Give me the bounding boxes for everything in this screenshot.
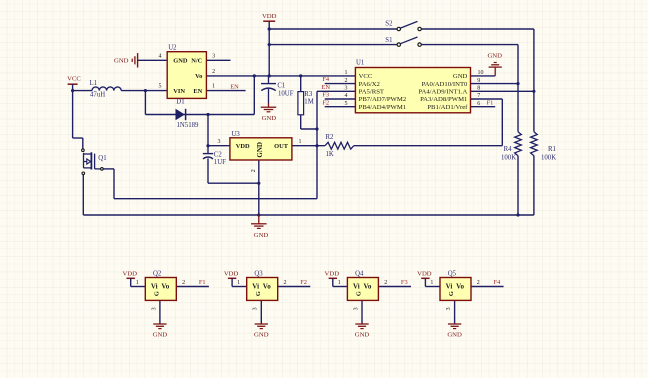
svg-text:GND: GND bbox=[355, 332, 370, 339]
junction bbox=[206, 144, 209, 147]
svg-text:2: 2 bbox=[284, 280, 287, 286]
power VDD port (Q3) bbox=[224, 271, 239, 287]
wire bbox=[253, 76, 255, 115]
svg-text:GND: GND bbox=[173, 58, 188, 65]
junction bbox=[299, 74, 302, 77]
svg-text:10UF: 10UF bbox=[278, 90, 294, 97]
wire bbox=[269, 28, 397, 30]
svg-text:5: 5 bbox=[159, 84, 162, 90]
pin 1 bbox=[345, 70, 348, 76]
svg-text:G: G bbox=[356, 291, 363, 296]
svg-text:2: 2 bbox=[384, 280, 387, 286]
svg-text:3: 3 bbox=[218, 139, 221, 145]
svg-text:EN: EN bbox=[321, 84, 330, 91]
wire bbox=[454, 300, 456, 323]
wire bbox=[301, 115, 317, 129]
power VDD port (Q4) bbox=[325, 271, 340, 287]
svg-text:5: 5 bbox=[345, 101, 348, 107]
svg-text:GND: GND bbox=[453, 73, 468, 80]
svg-text:PB1/AD1/Vref: PB1/AD1/Vref bbox=[427, 104, 468, 111]
svg-text:VDD: VDD bbox=[122, 271, 137, 278]
svg-text:GND: GND bbox=[254, 332, 269, 339]
svg-text:L1: L1 bbox=[90, 80, 98, 87]
pin 2 bbox=[345, 78, 348, 84]
svg-text:U2: U2 bbox=[168, 45, 177, 52]
svg-text:1: 1 bbox=[212, 84, 215, 90]
svg-text:OUT: OUT bbox=[274, 143, 289, 150]
svg-text:U1: U1 bbox=[356, 59, 364, 66]
svg-text:1: 1 bbox=[345, 70, 348, 76]
wire bbox=[471, 106, 496, 108]
net label EN bbox=[230, 83, 239, 90]
svg-text:PA0/AD10/INT0: PA0/AD10/INT0 bbox=[422, 81, 468, 88]
svg-text:VDD: VDD bbox=[236, 143, 250, 150]
pin 1 bbox=[430, 280, 433, 286]
ic U3 bbox=[230, 131, 292, 160]
svg-text:2: 2 bbox=[477, 280, 480, 286]
svg-text:2: 2 bbox=[212, 69, 215, 75]
wire bbox=[144, 91, 146, 115]
pin 1 bbox=[237, 280, 240, 286]
svg-text:G: G bbox=[153, 291, 160, 296]
svg-text:PA5/RST: PA5/RST bbox=[359, 89, 384, 96]
svg-text:F1: F1 bbox=[487, 99, 494, 106]
svg-text:F2: F2 bbox=[322, 99, 329, 106]
svg-text:Vo: Vo bbox=[364, 283, 372, 291]
pin 3 bbox=[151, 307, 157, 310]
wire bbox=[333, 286, 348, 288]
wire bbox=[208, 145, 230, 147]
junction bbox=[253, 74, 256, 77]
resistor R2 bbox=[325, 134, 354, 158]
svg-text:3: 3 bbox=[151, 307, 157, 310]
svg-text:2: 2 bbox=[182, 280, 185, 286]
svg-text:VIN: VIN bbox=[173, 88, 185, 95]
ic Q5 bbox=[440, 271, 471, 301]
junction bbox=[144, 89, 147, 92]
svg-text:100K: 100K bbox=[541, 155, 556, 162]
pin 1 bbox=[136, 280, 139, 286]
svg-text:1UF: 1UF bbox=[214, 159, 226, 166]
wire bbox=[145, 114, 254, 116]
net label F2 bbox=[322, 99, 329, 106]
svg-text:R1: R1 bbox=[548, 146, 556, 153]
svg-text:GND: GND bbox=[153, 332, 168, 339]
svg-text:7: 7 bbox=[477, 93, 480, 99]
junction bbox=[257, 213, 260, 216]
wire bbox=[471, 90, 534, 92]
resistor R3 bbox=[298, 91, 314, 115]
svg-text:GND: GND bbox=[262, 115, 277, 122]
wire bbox=[425, 286, 440, 288]
junction bbox=[268, 43, 271, 46]
junction bbox=[206, 113, 209, 116]
wire bbox=[354, 145, 503, 147]
svg-text:1N5189: 1N5189 bbox=[177, 122, 200, 129]
pin 5 bbox=[159, 84, 162, 90]
svg-text:S1: S1 bbox=[385, 37, 392, 44]
svg-text:D1: D1 bbox=[176, 99, 184, 106]
capacitor C2 bbox=[203, 152, 226, 166]
svg-text:GND: GND bbox=[447, 332, 462, 339]
svg-text:Vi: Vi bbox=[446, 283, 453, 291]
wire bbox=[258, 183, 260, 215]
junction bbox=[516, 82, 519, 85]
svg-text:Q5: Q5 bbox=[448, 271, 457, 278]
svg-text:1: 1 bbox=[237, 280, 240, 286]
pin 7 bbox=[477, 93, 480, 99]
svg-text:EN: EN bbox=[230, 83, 239, 90]
svg-text:Vi: Vi bbox=[353, 283, 360, 291]
svg-text:PA4/AD9/INT1.A: PA4/AD9/INT1.A bbox=[418, 89, 467, 96]
svg-text:1: 1 bbox=[299, 139, 302, 145]
ground (U2 pin 4) bbox=[114, 53, 138, 67]
svg-text:8: 8 bbox=[477, 86, 480, 92]
wire bbox=[316, 91, 318, 198]
power VDD port (top) bbox=[262, 13, 277, 76]
svg-text:1K: 1K bbox=[326, 151, 334, 158]
svg-text:1M: 1M bbox=[304, 98, 313, 105]
wire bbox=[421, 44, 518, 46]
svg-text:Vi: Vi bbox=[252, 283, 259, 291]
wire bbox=[269, 44, 397, 46]
svg-text:Q3: Q3 bbox=[254, 271, 263, 278]
svg-text:47uH: 47uH bbox=[90, 92, 105, 99]
svg-text:Q2: Q2 bbox=[153, 271, 162, 278]
capacitor C1 bbox=[261, 76, 294, 98]
pin 1 bbox=[338, 280, 341, 286]
ic U1 bbox=[355, 59, 470, 112]
svg-text:Vi: Vi bbox=[151, 283, 158, 291]
wire bbox=[206, 59, 230, 61]
pin 4 bbox=[159, 53, 162, 59]
wire bbox=[131, 286, 146, 288]
wire bbox=[103, 169, 317, 199]
ground (Q5) bbox=[447, 324, 462, 339]
power VDD port (Q5) bbox=[417, 271, 432, 287]
switch S2 bbox=[385, 21, 421, 31]
svg-text:R4: R4 bbox=[504, 146, 513, 153]
wire bbox=[292, 145, 325, 147]
net label F3 bbox=[401, 279, 408, 286]
pin 3 bbox=[212, 53, 215, 59]
wire bbox=[317, 90, 355, 92]
wire bbox=[176, 286, 209, 288]
svg-text:1: 1 bbox=[430, 280, 433, 286]
wire bbox=[533, 29, 535, 132]
svg-text:F2: F2 bbox=[300, 279, 307, 286]
svg-text:F3: F3 bbox=[322, 92, 329, 99]
svg-text:VDD: VDD bbox=[417, 271, 432, 278]
wire bbox=[361, 300, 363, 323]
wire bbox=[73, 90, 168, 92]
svg-text:VDD: VDD bbox=[325, 271, 340, 278]
svg-text:100K: 100K bbox=[501, 155, 516, 162]
svg-text:3: 3 bbox=[253, 307, 259, 310]
svg-text:F4: F4 bbox=[322, 76, 330, 83]
net label F4 bbox=[322, 76, 330, 83]
svg-text:1: 1 bbox=[136, 280, 139, 286]
net label F1 bbox=[487, 99, 494, 106]
svg-text:F1: F1 bbox=[199, 279, 206, 286]
wire bbox=[300, 76, 302, 92]
pin 4 bbox=[345, 93, 348, 99]
pin 10 bbox=[478, 70, 484, 76]
wire bbox=[471, 75, 496, 77]
ic Q2 bbox=[145, 271, 176, 301]
pin 3 bbox=[218, 139, 221, 145]
wire bbox=[325, 106, 356, 108]
svg-text:Vo: Vo bbox=[161, 283, 169, 291]
svg-text:3: 3 bbox=[212, 53, 215, 59]
pin 3 bbox=[353, 307, 359, 310]
pin 6 bbox=[477, 101, 480, 107]
diode D1 bbox=[176, 99, 200, 130]
svg-text:3: 3 bbox=[353, 307, 359, 310]
junction bbox=[315, 144, 318, 147]
wire bbox=[82, 175, 84, 215]
pin 1 bbox=[212, 84, 215, 90]
net label F2 bbox=[300, 279, 307, 286]
svg-text:G: G bbox=[255, 291, 262, 296]
svg-text:GND: GND bbox=[256, 142, 264, 158]
wire bbox=[471, 286, 504, 288]
svg-text:PB4/AD4/PWM1: PB4/AD4/PWM1 bbox=[359, 104, 407, 111]
ground (bottom rail) bbox=[251, 215, 268, 239]
ground (U1 pin 10, inverted) bbox=[487, 53, 502, 76]
svg-text:VDD: VDD bbox=[262, 13, 277, 20]
svg-text:GND: GND bbox=[487, 53, 502, 60]
ground (Q3) bbox=[254, 324, 269, 339]
svg-text:Vo: Vo bbox=[263, 283, 271, 291]
svg-text:R2: R2 bbox=[326, 134, 335, 141]
wire bbox=[378, 286, 411, 288]
ground (below C1) bbox=[261, 89, 277, 122]
junction bbox=[71, 89, 74, 92]
wire bbox=[207, 115, 209, 154]
svg-text:U3: U3 bbox=[232, 131, 241, 138]
svg-text:VCC: VCC bbox=[359, 73, 373, 80]
inductor L1 bbox=[90, 80, 122, 98]
pin 3 bbox=[446, 307, 452, 310]
wire bbox=[421, 28, 534, 30]
svg-text:2: 2 bbox=[345, 78, 348, 84]
junction bbox=[315, 127, 318, 130]
pin 2 bbox=[384, 280, 387, 286]
ground (Q2) bbox=[153, 324, 168, 339]
svg-text:N/C: N/C bbox=[191, 58, 202, 65]
switch S1 bbox=[385, 37, 421, 46]
power VCC port bbox=[67, 76, 81, 91]
wire bbox=[517, 156, 519, 215]
svg-text:9: 9 bbox=[477, 78, 480, 84]
wire bbox=[501, 99, 503, 146]
wire bbox=[278, 286, 311, 288]
transistor Q1 bbox=[82, 149, 107, 175]
pin 9 bbox=[477, 78, 480, 84]
wire bbox=[471, 98, 503, 100]
wire bbox=[533, 156, 535, 215]
svg-text:PA6/X2: PA6/X2 bbox=[359, 81, 380, 88]
svg-text:Vo: Vo bbox=[195, 73, 202, 80]
svg-text:C2: C2 bbox=[214, 152, 223, 159]
ground (Q4) bbox=[355, 324, 370, 339]
pin 8 bbox=[477, 86, 480, 92]
resistor R4 bbox=[501, 132, 521, 162]
wire bbox=[73, 91, 83, 149]
svg-text:Q4: Q4 bbox=[355, 271, 364, 278]
svg-text:F3: F3 bbox=[401, 279, 408, 286]
svg-text:Vo: Vo bbox=[456, 283, 464, 291]
pin 2 bbox=[251, 169, 257, 172]
svg-text:3: 3 bbox=[446, 307, 452, 310]
pin 2 bbox=[477, 280, 480, 286]
pin 2 bbox=[284, 280, 287, 286]
svg-text:1: 1 bbox=[338, 280, 341, 286]
wire bbox=[471, 83, 519, 85]
pin 5 bbox=[345, 101, 348, 107]
power VDD port (Q2) bbox=[122, 271, 137, 287]
net label F3 bbox=[322, 92, 329, 99]
wire bbox=[138, 59, 167, 61]
svg-text:EN: EN bbox=[193, 88, 202, 95]
svg-text:10: 10 bbox=[478, 70, 484, 76]
wire bbox=[83, 214, 534, 216]
pin 2 bbox=[212, 69, 215, 75]
svg-text:VCC: VCC bbox=[67, 76, 81, 83]
junction bbox=[516, 213, 519, 216]
junction bbox=[532, 90, 535, 93]
svg-text:Q1: Q1 bbox=[98, 155, 106, 162]
net label EN bbox=[321, 84, 330, 91]
svg-text:GND: GND bbox=[254, 232, 269, 239]
net label F1 bbox=[199, 279, 206, 286]
resistor R1 bbox=[531, 132, 557, 162]
svg-text:PA3/AD8/PWM1: PA3/AD8/PWM1 bbox=[420, 96, 467, 103]
wire bbox=[517, 45, 519, 132]
wire bbox=[159, 300, 161, 323]
svg-text:6: 6 bbox=[477, 101, 480, 107]
svg-text:4: 4 bbox=[345, 93, 348, 99]
svg-text:R3: R3 bbox=[304, 91, 313, 98]
net label F4 bbox=[494, 279, 502, 286]
wire bbox=[325, 98, 356, 100]
wire bbox=[232, 286, 247, 288]
ic Q3 bbox=[247, 271, 278, 301]
wire bbox=[206, 75, 355, 77]
svg-text:F4: F4 bbox=[494, 279, 502, 286]
wire bbox=[206, 90, 245, 92]
junction bbox=[268, 27, 271, 30]
wire bbox=[260, 300, 262, 323]
wire bbox=[208, 158, 259, 183]
svg-text:PB7/AD7/PWM2: PB7/AD7/PWM2 bbox=[359, 96, 407, 103]
pin 3 bbox=[253, 307, 259, 310]
junction bbox=[268, 74, 271, 77]
svg-text:4: 4 bbox=[159, 53, 162, 59]
svg-text:VDD: VDD bbox=[224, 271, 239, 278]
pin 1 bbox=[299, 139, 302, 145]
svg-text:S2: S2 bbox=[385, 21, 393, 28]
svg-text:C1: C1 bbox=[277, 83, 285, 90]
wire bbox=[325, 83, 356, 85]
ic Q4 bbox=[347, 271, 378, 301]
ic U2 bbox=[167, 45, 206, 99]
pin 3 bbox=[345, 86, 348, 92]
pin 2 bbox=[182, 280, 185, 286]
junction bbox=[257, 182, 260, 185]
svg-text:G: G bbox=[448, 291, 455, 296]
svg-text:2: 2 bbox=[251, 169, 257, 172]
wire bbox=[258, 160, 260, 183]
svg-text:3: 3 bbox=[345, 86, 348, 92]
svg-text:GND: GND bbox=[114, 57, 129, 64]
